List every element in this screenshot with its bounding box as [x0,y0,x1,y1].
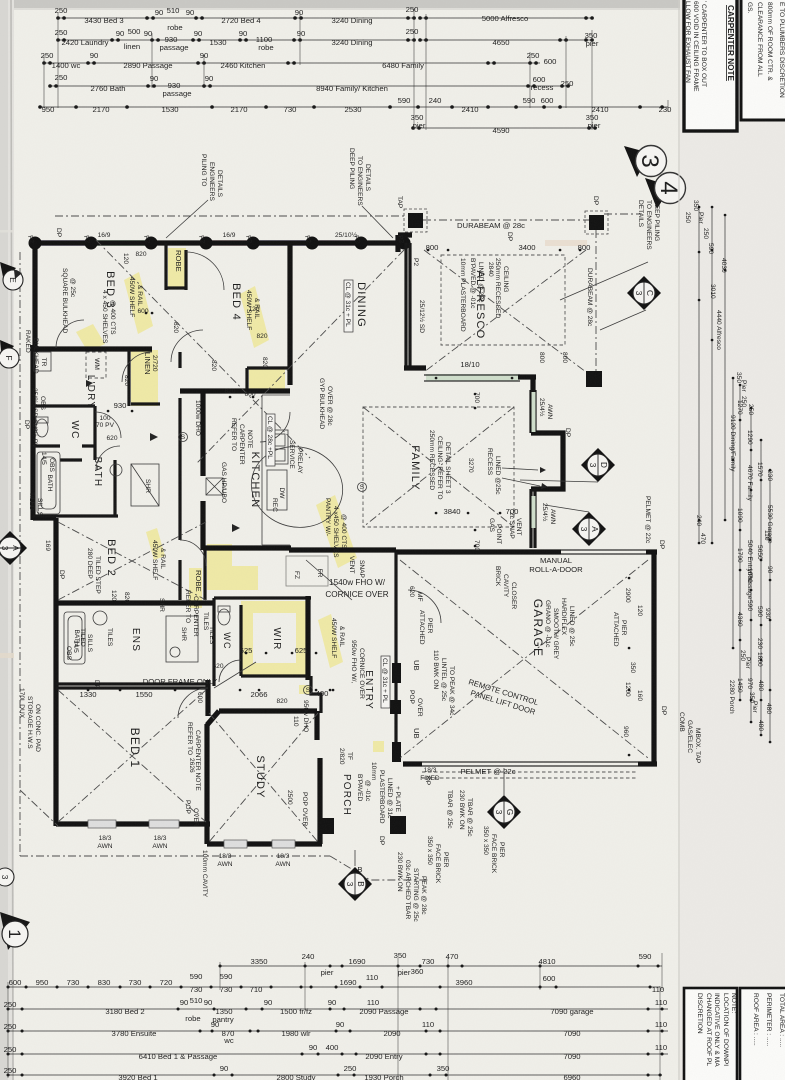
shower bath [131,464,159,506]
yellow: bed2 shelf [146,528,165,560]
scan shading left edge [0,0,8,1080]
wir right wall [305,596,310,680]
bottom dimension row 3 [8,1008,668,1010]
alfresco pier NW [408,213,423,228]
leader lines to notes [166,200,648,866]
dimension row 4 [50,85,570,87]
wall posts P2 [35,237,404,250]
dimension row 6 [413,127,595,129]
recess leader arrows [502,468,540,486]
smoke detector symbols [179,433,188,442]
bottom dimension row 2 [8,986,660,988]
dimension row 2 [58,39,414,41]
study bottom wall [207,841,322,846]
left marker E [0,262,16,282]
entry west wall [394,552,397,760]
yellow: robe bed3/bed4 [168,248,186,287]
fridge recess [286,556,328,586]
study diagonals [209,713,318,842]
durabeam top line [423,214,642,220]
recess box [531,433,563,489]
alfresco pier SE [586,371,602,387]
right margin vertical dimension chains [684,200,773,742]
bottom dimension row 6 [8,1074,662,1076]
vanity basins [93,611,107,625]
top exterior wall [33,240,408,245]
section marker C/3 [627,276,661,310]
ens top wall [56,600,214,605]
bottom dimension row 5 [8,1053,668,1055]
window tint bands on top wall [40,240,90,246]
bed1 windows [88,820,116,828]
dining right wall [406,243,410,370]
dining corner block [404,365,426,370]
family east wall [531,390,535,433]
kitchen west wall [203,391,291,550]
fold corner marker 1 [0,912,30,950]
carpenter note box (top right) [684,0,737,131]
yellow: pantry [207,544,258,590]
section marker 3 [624,146,650,177]
eave outline left [19,252,21,856]
bed3/kitchen long diagonal [96,240,310,458]
bath walls [33,460,118,516]
garage top wall [396,549,657,554]
bed1 top wall [56,684,208,688]
yellow: 1st porch [373,741,384,752]
window band corner block [518,375,536,392]
garage rear dashed lines [422,772,638,778]
boxed labels CL [344,280,353,332]
section marker G/3 [487,795,521,829]
misc dimension dots in plan [88,250,629,755]
yellow: robe bed4 [249,368,285,389]
downpipe note box (bottom right) [684,988,737,1080]
bottom dimension row 1 [220,965,460,967]
deep piling note (top right) [637,200,660,250]
bath tub [37,452,60,514]
alfresco ceiling rect [441,255,565,345]
garage lift door opening [422,762,638,766]
18/10 window band [424,375,520,381]
yellow: WIR frame [241,601,308,675]
yellow: bed3 shelf highlight [124,272,153,334]
durabeam right line [595,230,597,371]
kitchen bench [262,395,290,545]
wc/wir top wall [214,598,311,686]
porch piers [320,818,334,834]
dimension row 3 [44,62,540,64]
scan fold vertical line [11,0,13,1080]
dimension row 1 [58,17,414,19]
left exterior wall laundry zone [33,345,56,826]
section marker A/3 [572,512,606,546]
area table box (bottom right) [740,988,785,1080]
scan fold horizontal crease [0,653,785,658]
left marker F [0,340,14,360]
sheet edge line [678,0,680,1080]
wc pan ensuite [218,609,230,625]
bed4 bottom / kitchen top wall [180,388,290,393]
section marker 4 [645,178,671,209]
dimension row 5 [40,106,668,108]
top dimension block [40,5,671,135]
yellow: linen [131,350,158,406]
study windows [224,840,247,848]
passage wall [178,352,181,600]
section marker B/3 [338,867,372,901]
left marker 3 (cut) [0,868,14,886]
bed1 east wall [205,680,210,716]
small arrows [14,270,22,279]
bed2 diagonal [58,522,206,600]
garage bottom wall [403,761,657,766]
trough TR [34,352,51,371]
bed1 diagonals [58,690,206,822]
yellow: wir shelf highlight [318,614,343,668]
section marker D/3 [581,448,615,482]
kitchen servery oval [243,437,352,537]
bottom block vertical extension lines [7,982,9,1078]
house NE corner block [398,235,412,252]
bed3/robe divider [166,243,186,290]
section marker A/3 [0,531,27,565]
plumber note box (top right, cut) [741,0,785,120]
garage east wall [651,550,656,766]
dining long diagonal [196,250,404,464]
ens tub [64,612,85,664]
eave outline top [55,215,404,217]
roll-a-door opening [561,550,646,554]
study right wall [317,711,320,844]
study top wall [207,711,317,725]
laundry/wc divider [33,406,95,460]
bed3 bottom wall [33,346,152,351]
robe bed4 box [247,368,290,389]
gas hotplate [206,478,223,495]
left exterior wall upper [32,241,37,347]
eave outline bottom [20,790,430,880]
scan shading top [0,0,785,8]
18/10 window band tint [426,374,518,381]
bed4 right wall [287,243,292,385]
door swing arcs [186,252,224,290]
family ceiling rect [363,407,514,527]
alfresco pier NE [589,215,604,230]
yellow: bed4 shelf highlight [240,286,269,348]
wc pan laundry [36,419,48,437]
yellow: robe ens [189,568,202,608]
linen left wall [129,350,160,406]
kitchen/family bottom wall [289,547,396,552]
wir/study connector wall [205,550,321,713]
1540 dim leader lines [214,560,352,688]
garage cross bracing [400,560,648,758]
washing machine [86,352,106,378]
bed1 bottom wall [56,821,210,826]
sink / appliances [266,430,288,464]
wir bottom wall [241,605,308,676]
vertical extension lines [57,12,59,108]
study left wall [204,724,209,844]
family east wall lower [531,489,535,548]
shower ens [166,616,198,662]
bottom dimension row 4 [8,1030,668,1032]
